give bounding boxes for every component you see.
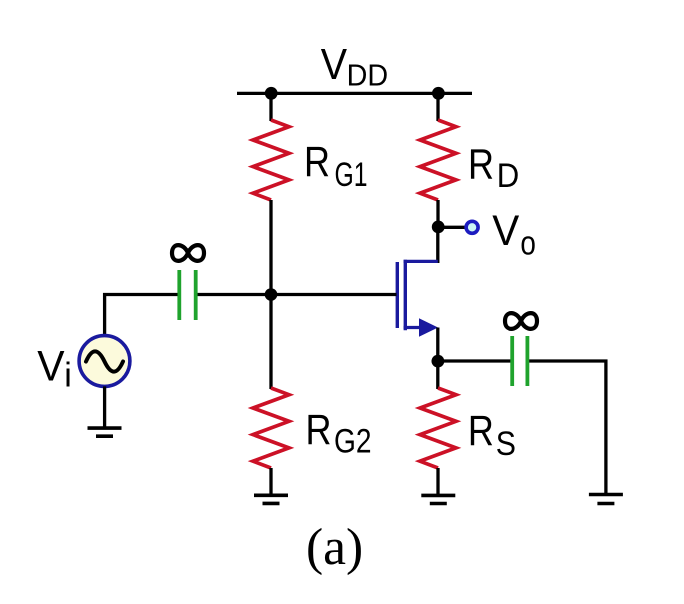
ground RG2 (254, 495, 288, 503)
node drain junction (432, 221, 445, 234)
transistor Q1 MOSFET channel bar (404, 260, 407, 330)
wire drain to Vo terminal (438, 226, 465, 229)
wire drain node to MOSFET drain (436, 227, 439, 263)
capacitor input right plate (194, 270, 198, 320)
ground RS (421, 495, 455, 503)
svg-text:V: V (492, 208, 520, 255)
svg-text:R: R (306, 407, 332, 454)
wire RD to drain node (436, 200, 439, 227)
resistor RG1 (253, 120, 289, 200)
wire source node to output cap (438, 359, 511, 362)
svg-text:G2: G2 (334, 423, 372, 461)
transistor Q1 MOSFET source arrow (419, 318, 438, 336)
capacitor output left plate (510, 336, 514, 386)
label infinity input cap (172, 245, 204, 261)
resistor RS (420, 388, 456, 468)
resistor RD (420, 120, 456, 200)
source Vi circle (79, 336, 130, 387)
wire output cap to right ground (529, 361, 606, 495)
node gate junction (265, 288, 278, 301)
transistor Q1 MOSFET source lead (404, 326, 422, 329)
svg-text:o: o (520, 224, 536, 262)
wire Vi to input cap (105, 295, 178, 337)
svg-text:R: R (468, 408, 494, 455)
capacitor output right plate (526, 336, 530, 386)
svg-text:D: D (497, 157, 520, 195)
svg-text:V: V (37, 343, 65, 391)
svg-text:(a): (a) (306, 519, 363, 576)
source Vi sine wave (86, 351, 123, 371)
wire VDD to RD (436, 93, 439, 121)
node source junction (432, 355, 445, 368)
capacitor input left plate (177, 270, 181, 320)
svg-text:S: S (496, 425, 516, 463)
svg-text:R: R (468, 141, 494, 188)
wire MOSFET source to source node (436, 328, 439, 362)
node VDD-RG1 junction (265, 87, 278, 100)
terminal Vo (466, 221, 478, 233)
label infinity output cap (505, 313, 537, 329)
svg-text:DD: DD (347, 58, 389, 93)
wire source node to RS (436, 361, 439, 389)
wire RG2 to ground (269, 468, 272, 495)
ground output (589, 495, 623, 504)
svg-text:V: V (321, 41, 347, 89)
ground Vi (88, 428, 122, 436)
wire RG1 to gate node (269, 200, 272, 295)
wire gate node to RG2 (269, 295, 272, 390)
wire gate (271, 293, 397, 296)
wire VDD rail (237, 92, 472, 95)
resistor RG2 (253, 388, 289, 468)
svg-text:i: i (64, 356, 72, 394)
transistor Q1 MOSFET gate bar (396, 262, 399, 328)
wire Vi to ground (103, 386, 106, 428)
svg-text:G1: G1 (335, 156, 368, 194)
wire input cap to gate node (197, 293, 271, 296)
node VDD-RD junction (432, 87, 445, 100)
transistor Q1 MOSFET drain lead (404, 260, 438, 263)
wire VDD to RG1 (269, 93, 272, 121)
wire RS to ground (436, 468, 439, 495)
svg-text:R: R (304, 139, 330, 186)
